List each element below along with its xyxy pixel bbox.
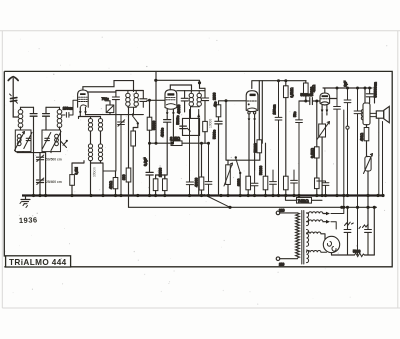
grid leak 50000: [304, 81, 314, 103]
IF1 return line with resistor: [122, 107, 131, 195]
svg-text:4000c: 4000c: [160, 128, 164, 137]
tube T2 IF amp: [165, 85, 192, 143]
tank 2: padder box: [42, 130, 61, 152]
svg-text:5000c: 5000c: [212, 130, 216, 139]
bus junction dots: [32, 194, 385, 209]
svg-text:400Ω: 400Ω: [360, 132, 364, 141]
resistor 50000 right: [259, 143, 268, 195]
cap 0,1uF on x149.5: [144, 158, 154, 179]
padder cap 700c: [86, 97, 144, 115]
svg-text:40000: 40000: [177, 104, 181, 113]
svg-text:25/400 cm: 25/400 cm: [46, 180, 62, 184]
vertical x45.6 to bus: [45, 153, 47, 196]
svg-text:700c: 700c: [102, 97, 110, 101]
transformer core: [302, 211, 304, 265]
tube T4 output: [312, 84, 337, 124]
antenna: [8, 77, 18, 117]
svg-text:740Ω: 740Ω: [298, 199, 309, 204]
long vertical from top border x156: [155, 71, 157, 143]
speaker: [370, 106, 389, 195]
lower bus: [129, 196, 377, 208]
plate resistor 0,5M: [284, 81, 294, 196]
svg-text:40000: 40000: [195, 178, 199, 187]
wire mixer anode to IF1: [88, 91, 116, 93]
cap on x337: [334, 87, 341, 196]
tank 1: padder box with trimmer: [15, 130, 33, 152]
cap on x294: [291, 170, 298, 196]
variable cap 25/400cm: [37, 178, 44, 196]
resistor below switch: [131, 124, 138, 196]
cathode resistor 3000: [237, 176, 250, 195]
AVC line and 2Mohm resistor: [147, 100, 208, 195]
svg-text:0,1MΩ: 0,1MΩ: [310, 148, 314, 158]
diagonal link to lower bus: [204, 195, 230, 208]
screen rail y88: [323, 87, 372, 89]
volume potentiometer: [224, 160, 233, 195]
coupling cap 100c tank2 to mixer grid: [62, 100, 77, 117]
oscillator coil assembly: [79, 117, 104, 196]
IF2 secondary lead down: [204, 132, 206, 144]
switch on pot: [235, 156, 242, 195]
svg-text:0,1M: 0,1M: [75, 167, 79, 175]
tone pot under T4: [317, 122, 330, 196]
740ohm resistor box on bus: [286, 196, 323, 204]
svg-text:5000: 5000: [353, 249, 361, 253]
svg-text:110: 110: [279, 263, 284, 267]
cap on x273: [270, 170, 277, 196]
filament windings with arrows: [307, 212, 331, 224]
svg-text:100cm: 100cm: [63, 107, 73, 111]
svg-text:50000: 50000: [152, 121, 156, 130]
heater connections: [331, 207, 344, 229]
grid rail left (AVC) y80.3: [156, 80, 205, 88]
tube T3 detector: [246, 91, 258, 177]
electrolytic cap 1: [344, 207, 353, 255]
field resistor 400ohm: [360, 125, 369, 157]
svg-text:5000c: 5000c: [176, 115, 180, 124]
main ground bus: [22, 194, 383, 196]
cap 8uF on x347.5: [343, 81, 351, 196]
svg-text:40c: 40c: [214, 101, 218, 107]
svg-text:400Ω: 400Ω: [109, 180, 113, 189]
resistor 10000 (diode load): [203, 121, 208, 131]
svg-text:10000: 10000: [208, 119, 212, 128]
detector HT rail y80.7: [252, 81, 306, 89]
grid cap line 100cm: [272, 81, 282, 196]
power transformer primary (zigzag): [296, 213, 300, 258]
filter resistor: [332, 249, 375, 256]
vertical x201.5 with resistor: [199, 142, 204, 196]
tank 2: coil L2: [46, 107, 62, 130]
grid-cap wire of mixer: [83, 81, 134, 92]
border frame: [4, 71, 392, 266]
ground symbol: [20, 196, 30, 208]
tank 2: coupling capacitor: [43, 107, 50, 130]
tank 1: capacitor C1: [30, 107, 37, 152]
svg-text:50000: 50000: [253, 143, 257, 152]
title box TRIALMO 444: [6, 256, 71, 267]
svg-text:300cm: 300cm: [93, 167, 97, 177]
svg-text:100cm: 100cm: [272, 104, 276, 114]
tube T1 mixer: [78, 90, 89, 117]
IF transformer 2: [177, 88, 217, 121]
cap next to 3000: [251, 170, 258, 196]
wire tank bottoms to cap rail: [17, 152, 46, 153]
svg-text:3000: 3000: [237, 178, 241, 186]
cap 5000c in box: [176, 115, 190, 131]
wire T2 anode to IF2: [177, 90, 185, 92]
resistor pair mid (10000 / 15000): [153, 168, 167, 196]
grid feed into T2: [147, 99, 165, 101]
IF transformer 1: [112, 91, 146, 172]
svg-text:TRiALMO 444: TRiALMO 444: [9, 258, 67, 267]
svg-text:220: 220: [279, 209, 285, 213]
cathode cap 4000c: [160, 120, 170, 179]
svg-text:50/500 cm: 50/500 cm: [46, 157, 62, 161]
capacitor on antenna lead: [10, 94, 18, 103]
svg-text:4MΩ: 4MΩ: [312, 84, 316, 92]
cap right of bias: [317, 181, 329, 196]
wire: tank2 bottom to rail: [50, 152, 52, 153]
screen resistor 2000: [213, 92, 247, 160]
svg-text:50c: 50c: [293, 111, 297, 117]
svg-text:1936: 1936: [19, 215, 38, 225]
detector wire box: [183, 118, 200, 135]
svg-text:2000: 2000: [213, 92, 217, 100]
svg-text:300: 300: [122, 174, 126, 180]
vertical x208.5 with cap: [205, 142, 212, 196]
svg-text:10000: 10000: [159, 168, 163, 177]
svg-text:0,5MΩ: 0,5MΩ: [290, 87, 294, 97]
vertical x33 to bus: [33, 153, 35, 196]
svg-text:50000: 50000: [259, 166, 263, 175]
output transformer: [361, 87, 371, 125]
tank 1: coil L1: [18, 107, 33, 130]
osc tuning cap: [118, 115, 125, 196]
mains terminals: [276, 209, 297, 267]
resistor 400ohm on x115.5: [103, 171, 118, 196]
coupling line y101 with cap: [293, 93, 320, 195]
band switch S1: [132, 113, 139, 124]
right psu verticals: [307, 207, 377, 255]
cap 5000c below: [212, 121, 222, 195]
svg-text:0,1μF: 0,1μF: [144, 158, 148, 167]
resistor 0,1M on x72: [70, 161, 84, 196]
svg-text:8μF: 8μF: [343, 81, 347, 87]
heater feed vertical: [343, 110, 345, 207]
tone pot right: [364, 154, 373, 230]
cap + resistor 40000 on x190-194: [186, 110, 198, 196]
diode load 50000: [228, 81, 262, 161]
variable cap 50/500cm: [37, 153, 44, 179]
secondary windings: [307, 213, 309, 263]
electrolytic cap 2: [359, 224, 371, 255]
svg-text:2 MΩ: 2 MΩ: [170, 136, 181, 141]
cap 500000c top right: [365, 82, 378, 103]
wave switch contact right of tank2: [61, 140, 68, 148]
AF takeoff vertical with arrow: [197, 110, 200, 196]
bias chain x316.75: [310, 100, 319, 196]
cap on x357.5: [354, 87, 361, 255]
rectifier tube T5: [307, 232, 340, 255]
